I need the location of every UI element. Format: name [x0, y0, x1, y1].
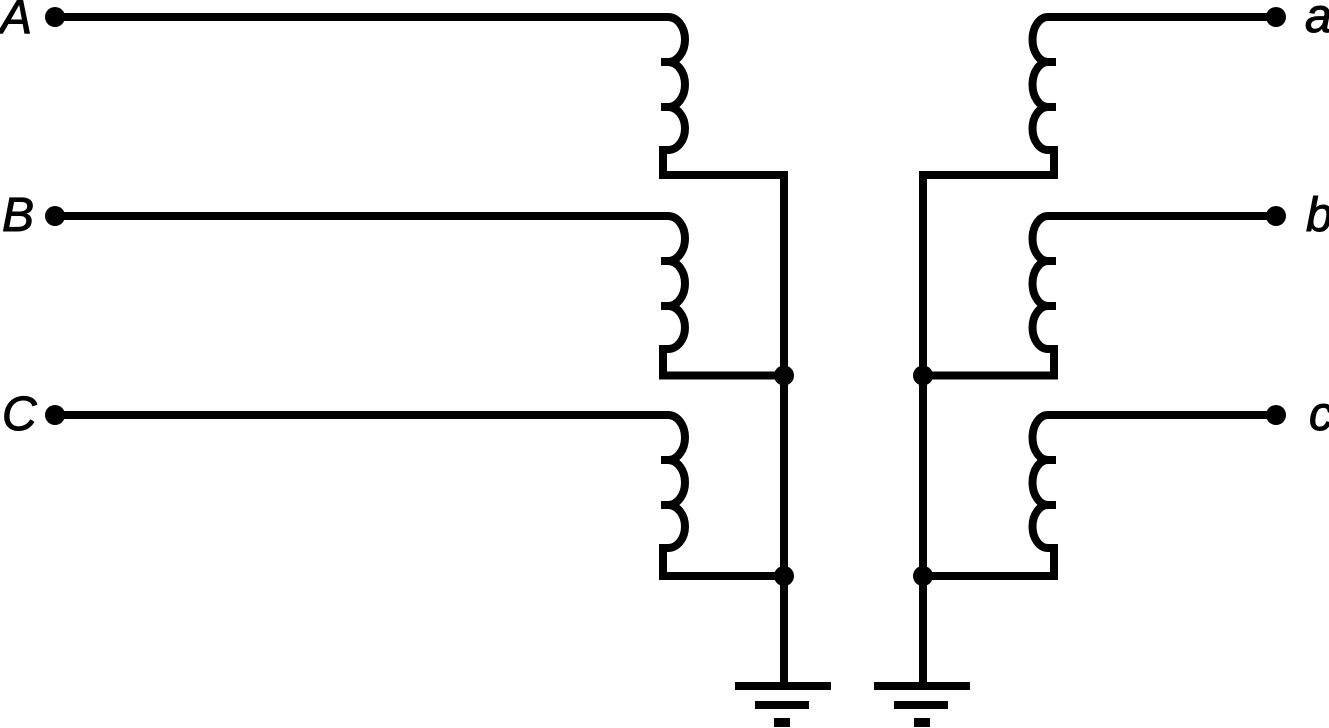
- ground left: [735, 682, 831, 690]
- svg-text:b: b: [1306, 189, 1329, 242]
- wire a with secondary winding coil a and right neutral bus: [923, 17, 1276, 686]
- svg-text:A: A: [0, 0, 32, 44]
- svg-text:c: c: [1309, 388, 1329, 441]
- junction left neutral-B: [774, 366, 794, 386]
- terminal a: [1266, 7, 1286, 27]
- junction right neutral-c: [913, 566, 933, 586]
- svg-text:B: B: [2, 189, 34, 242]
- wire B with primary winding coil B: [55, 216, 784, 376]
- svg-text:C: C: [2, 388, 37, 441]
- terminal c: [1266, 405, 1286, 425]
- wire A with primary winding coil A and left neutral bus: [55, 17, 784, 686]
- junction right neutral-b: [913, 366, 933, 386]
- wire b with secondary winding coil b: [923, 216, 1276, 376]
- junction left neutral-C: [774, 566, 794, 586]
- terminal b: [1266, 206, 1286, 226]
- wire C with primary winding coil C: [55, 415, 784, 576]
- terminal B: [45, 206, 65, 226]
- ground right: [874, 682, 970, 690]
- terminal C: [45, 405, 65, 425]
- terminal A: [45, 7, 65, 27]
- wire c with secondary winding coil c: [923, 415, 1276, 576]
- svg-text:a: a: [1305, 0, 1329, 43]
